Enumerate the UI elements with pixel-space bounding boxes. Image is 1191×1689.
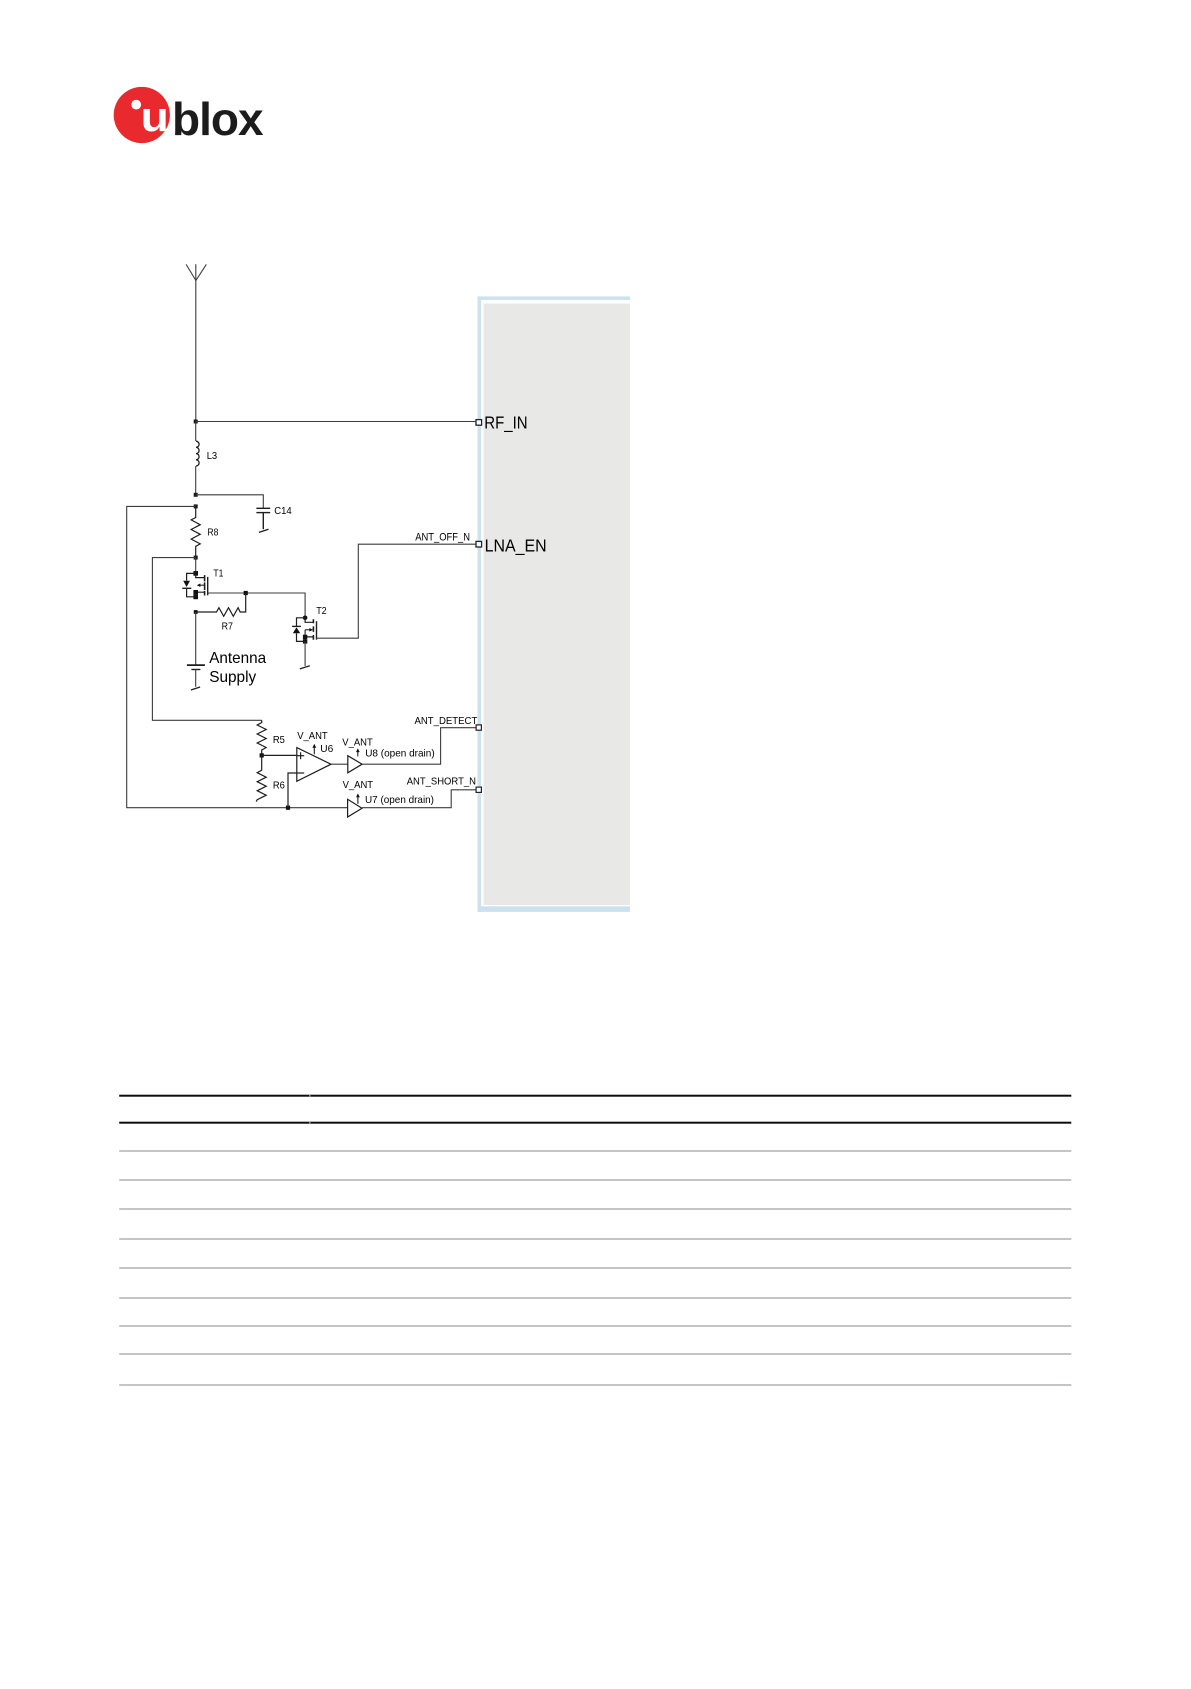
svg-text:Supply: Supply [209, 669, 256, 686]
capacitor C14 [256, 508, 270, 529]
wire U6 out to U8 [331, 763, 348, 765]
table column tick marks [309, 1095, 311, 1097]
table row line 9 [119, 1384, 1071, 1386]
wire L3 to C14 node [195, 466, 197, 495]
pin ANT_DETECT [476, 725, 481, 730]
table row line 7 [119, 1325, 1071, 1327]
svg-text:R8: R8 [207, 527, 218, 538]
antenna [186, 264, 206, 421]
node -input tap [286, 806, 290, 810]
node C14 tap [194, 493, 198, 497]
buffer U8 [348, 748, 362, 773]
table header line 1 [119, 1095, 1071, 1097]
wire rail B (to R5 divider) [152, 558, 261, 721]
ground (C14) [259, 529, 269, 532]
resistor R7 [196, 593, 246, 616]
table header line 2 [119, 1122, 1071, 1124]
node divider mid [260, 753, 264, 757]
svg-text:C14: C14 [274, 506, 292, 517]
resistor R5 [257, 720, 266, 755]
table row line 5 [119, 1267, 1071, 1269]
wire T2 gate to LNA_EN [317, 544, 477, 638]
svg-text:U6: U6 [320, 743, 333, 755]
node T1 source / R7 [194, 610, 198, 614]
svg-text:LNA_EN: LNA_EN [485, 536, 547, 557]
buffer U7 [348, 793, 362, 817]
transistor T2 (N-MOSFET with body diode) [292, 616, 316, 666]
node rail A tap [194, 504, 198, 508]
wire -input [288, 773, 304, 808]
svg-text:RF_IN: RF_IN [484, 412, 527, 433]
table row line 6 [119, 1297, 1071, 1299]
resistor R8 [191, 506, 200, 557]
svg-text:T1: T1 [213, 568, 223, 579]
wire U7 to ANT_SHORT_N pin [362, 790, 476, 808]
svg-text:V_ANT: V_ANT [343, 780, 374, 791]
wire RF_IN [196, 421, 477, 423]
wire T1 gate to T2 drain [208, 593, 305, 618]
svg-text:R7: R7 [222, 621, 234, 632]
svg-text:ANT_OFF_N: ANT_OFF_N [415, 531, 470, 543]
node: antenna feed junction [194, 420, 198, 424]
table row line 8 [119, 1353, 1071, 1355]
inductor L3 [196, 441, 199, 466]
op-amp U6 [297, 744, 331, 782]
wire rail A (left loop to comparator input) [127, 506, 348, 807]
module block gray body [484, 304, 631, 906]
svg-text:u: u [141, 94, 169, 141]
table row line 2 [119, 1179, 1071, 1181]
svg-text:T2: T2 [316, 606, 327, 617]
svg-text:Antenna: Antenna [209, 650, 266, 667]
svg-text:blox: blox [172, 93, 264, 145]
svg-text:ANT_DETECT: ANT_DETECT [415, 715, 478, 727]
svg-text:V_ANT: V_ANT [297, 731, 328, 742]
svg-text:R5: R5 [273, 734, 285, 746]
u-blox logo [114, 87, 264, 145]
svg-text:ANT_SHORT_N: ANT_SHORT_N [407, 776, 476, 788]
svg-text:L3: L3 [207, 451, 218, 462]
pin LNA_EN [476, 541, 482, 547]
ground (battery) [191, 687, 200, 690]
resistor R6 [256, 755, 266, 801]
pin RF_IN [476, 420, 482, 426]
wire divider to +input [262, 754, 305, 756]
node rail B tap [194, 556, 198, 560]
wire antenna to L3 [195, 422, 197, 442]
transistor T1 (P-MOSFET with body diode) [182, 558, 207, 600]
pin ANT_SHORT_N [476, 787, 481, 792]
module block blue border [478, 296, 631, 300]
svg-text:U7 (open drain): U7 (open drain) [365, 794, 434, 806]
ground (T2) [300, 666, 310, 669]
node R7 gate junction [244, 591, 248, 595]
wire U8 to ANT_DETECT pin [362, 728, 476, 765]
svg-text:R6: R6 [273, 779, 285, 791]
table row line 3 [119, 1208, 1071, 1210]
wire to C14 [196, 495, 264, 508]
battery Antenna Supply [187, 612, 205, 687]
svg-text:U8 (open drain): U8 (open drain) [365, 747, 435, 759]
table row line 1 [119, 1150, 1071, 1152]
table row line 4 [119, 1238, 1071, 1240]
